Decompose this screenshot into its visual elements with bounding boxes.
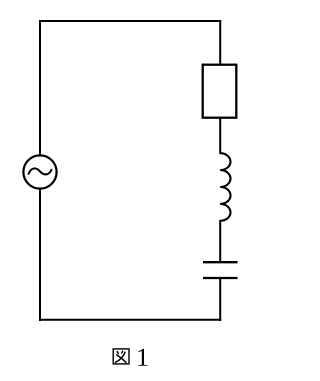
- wire: left vertical lower (AC source to bottom corner): [39, 189, 41, 321]
- AC source sine symbol: [29, 168, 52, 174]
- capacitor C top plate: [203, 261, 238, 263]
- wire: right vertical resistor to inductor: [219, 117, 221, 154]
- wire: top horizontal: [39, 20, 221, 22]
- resistor R (rectangle): [203, 65, 237, 118]
- inductor L (4 arcs): [220, 153, 230, 221]
- capacitor C bottom plate: [203, 277, 238, 279]
- wire: bottom horizontal: [39, 319, 221, 321]
- wire: left vertical upper (top corner to AC source): [39, 20, 41, 156]
- caption digit 1: [138, 349, 147, 366]
- wire: right vertical above resistor: [219, 20, 221, 65]
- wire: right vertical inductor to capacitor: [219, 220, 221, 262]
- wire: right vertical capacitor to bottom corner: [219, 278, 221, 321]
- AC source V1 (circle): [23, 155, 56, 188]
- caption glyph 図 (drawn): [113, 349, 129, 364]
